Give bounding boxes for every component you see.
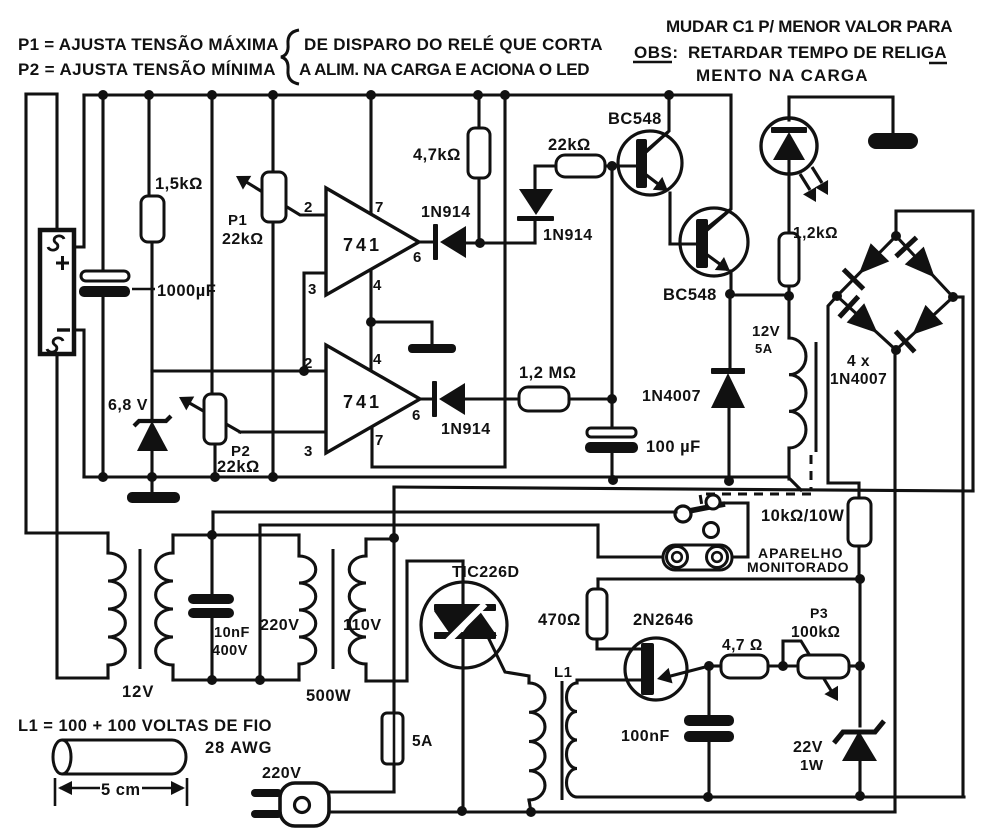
- svg-text:100 µF: 100 µF: [646, 438, 701, 456]
- svg-text:3: 3: [308, 281, 317, 298]
- svg-text:P1 = AJUSTA TENSÃO MÁXIMA: P1 = AJUSTA TENSÃO MÁXIMA: [18, 34, 279, 54]
- svg-text:12V: 12V: [122, 683, 154, 701]
- svg-text:4: 4: [373, 277, 382, 294]
- svg-text:1,2 MΩ: 1,2 MΩ: [519, 364, 577, 382]
- svg-text:1N914: 1N914: [543, 227, 593, 244]
- svg-text:28 AWG: 28 AWG: [205, 739, 272, 757]
- svg-text:110V: 110V: [343, 617, 381, 634]
- svg-text:OBS:: OBS:: [634, 43, 679, 62]
- svg-text:5 cm: 5 cm: [101, 781, 141, 799]
- svg-text:741: 741: [343, 392, 382, 412]
- svg-text:22kΩ: 22kΩ: [222, 231, 264, 248]
- svg-text:1N914: 1N914: [441, 421, 491, 438]
- svg-text:220V: 220V: [262, 765, 301, 782]
- svg-text:1N4007: 1N4007: [830, 371, 887, 388]
- svg-text:BC548: BC548: [608, 110, 662, 128]
- svg-text:4,7 Ω: 4,7 Ω: [722, 637, 763, 654]
- svg-text:2: 2: [304, 199, 313, 216]
- svg-text:100kΩ: 100kΩ: [791, 624, 840, 641]
- svg-text:1,5kΩ: 1,5kΩ: [155, 175, 203, 193]
- svg-text:4: 4: [373, 351, 382, 368]
- svg-text:RETARDAR TEMPO DE RELIGA: RETARDAR TEMPO DE RELIGA: [688, 43, 947, 62]
- svg-text:6: 6: [413, 249, 422, 266]
- svg-text:22V: 22V: [793, 739, 823, 756]
- svg-text:5A: 5A: [412, 733, 433, 750]
- svg-text:1000µF: 1000µF: [157, 282, 216, 300]
- svg-text:1W: 1W: [800, 757, 824, 774]
- svg-text:500W: 500W: [306, 687, 351, 705]
- svg-text:3: 3: [304, 443, 313, 460]
- svg-text:MUDAR C1 P/ MENOR VALOR PA: MUDAR C1 P/ MENOR VALOR PARA: [666, 17, 953, 36]
- svg-text:1N4007: 1N4007: [642, 388, 701, 405]
- svg-text:1,2kΩ: 1,2kΩ: [793, 225, 838, 242]
- svg-text:6: 6: [412, 407, 421, 424]
- svg-text:BC548: BC548: [663, 286, 717, 304]
- svg-text:4,7kΩ: 4,7kΩ: [413, 146, 461, 164]
- svg-text:DE DISPARO DO RELÉ QUE CO: DE DISPARO DO RELÉ QUE CORTA: [304, 35, 603, 54]
- svg-text:2: 2: [304, 355, 313, 372]
- svg-text:P3: P3: [810, 605, 828, 621]
- svg-text:5A: 5A: [755, 341, 773, 356]
- svg-text:L1 = 100 + 100 VOLTAS DE FI: L1 = 100 + 100 VOLTAS DE FIO: [18, 717, 272, 735]
- svg-text:P1: P1: [228, 212, 247, 229]
- svg-text:7: 7: [375, 432, 384, 449]
- svg-text:220V: 220V: [260, 617, 299, 634]
- svg-text:100nF: 100nF: [621, 728, 670, 745]
- svg-text:1N914: 1N914: [421, 204, 471, 221]
- svg-text:A ALIM. NA CARGA E ACIONA: A ALIM. NA CARGA E ACIONA O LED: [299, 60, 590, 79]
- svg-text:10nF: 10nF: [214, 625, 250, 641]
- svg-text:TIC226D: TIC226D: [452, 564, 520, 581]
- svg-text:4 x: 4 x: [847, 353, 870, 370]
- svg-text:400V: 400V: [212, 643, 248, 659]
- svg-text:22kΩ: 22kΩ: [548, 136, 591, 154]
- svg-text:6,8 V: 6,8 V: [108, 397, 148, 414]
- svg-text:MENTO NA CARGA: MENTO NA CARGA: [696, 66, 868, 85]
- svg-text:22kΩ: 22kΩ: [217, 458, 260, 476]
- svg-text:7: 7: [375, 199, 384, 216]
- svg-text:470Ω: 470Ω: [538, 611, 581, 629]
- svg-text:L1: L1: [554, 664, 573, 681]
- svg-text:741: 741: [343, 235, 382, 255]
- svg-text:MONITORADO: MONITORADO: [747, 559, 849, 575]
- svg-text:P2 = AJUSTA TENSÃO MÍNIMA: P2 = AJUSTA TENSÃO MÍNIMA: [18, 59, 276, 79]
- svg-text:2N2646: 2N2646: [633, 611, 694, 629]
- svg-text:12V: 12V: [752, 323, 780, 340]
- svg-text:10kΩ/10W: 10kΩ/10W: [761, 507, 844, 525]
